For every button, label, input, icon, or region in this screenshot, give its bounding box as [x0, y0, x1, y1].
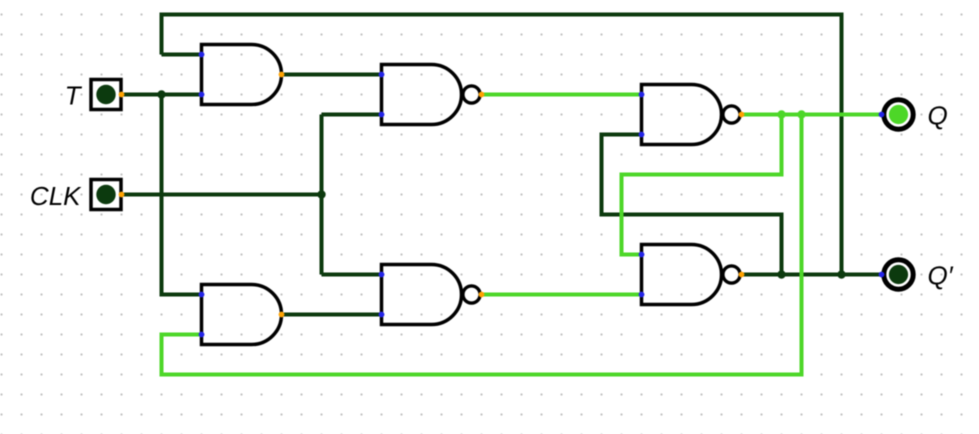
svg-text:T: T: [65, 81, 83, 111]
svg-text:Q′: Q′: [928, 261, 954, 291]
svg-text:CLK: CLK: [30, 181, 82, 211]
svg-text:Q: Q: [928, 101, 948, 131]
